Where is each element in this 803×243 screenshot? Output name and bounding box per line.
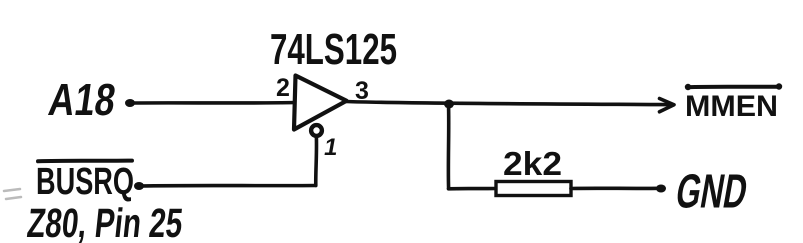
node: GND terminal dot <box>656 185 666 193</box>
buffer U1 74LS125 (tri-state driver triangle) <box>294 76 347 130</box>
wire: buffer output pin 3 to MMEN arrow <box>347 102 670 105</box>
wire: BUSRQ to enable <box>139 184 316 188</box>
resistor R1 2k2 <box>496 182 571 196</box>
wire: corner to resistor left lead <box>449 187 497 191</box>
enable bubble on pin 1 <box>311 125 322 136</box>
wire: junction down to pull-up resistor <box>447 104 451 189</box>
overline for BUSRQ <box>38 159 132 164</box>
svg-text:Z80, Pin 25: Z80, Pin 25 <box>25 200 185 243</box>
svg-text:2: 2 <box>276 74 290 102</box>
overline for MMEN <box>687 85 780 90</box>
svg-text:MMEN: MMEN <box>685 90 778 123</box>
wire: resistor right lead to GND <box>571 186 660 190</box>
junction node on output net <box>444 100 454 109</box>
svg-text:74LS125: 74LS125 <box>270 25 397 74</box>
svg-text:GND: GND <box>672 165 751 219</box>
svg-text:A18: A18 <box>46 74 119 125</box>
svg-text:BUSRQ: BUSRQ <box>36 161 134 203</box>
node: A18 terminal dot <box>125 99 135 107</box>
svg-text:2k2: 2k2 <box>503 145 562 182</box>
wire: A18 to buffer input pin 2 <box>131 101 295 105</box>
node: BUSRQ terminal dot <box>134 182 144 190</box>
wire: enable bubble down to BUSRQ wire <box>314 138 318 186</box>
arrowhead to MMEN <box>660 99 675 112</box>
